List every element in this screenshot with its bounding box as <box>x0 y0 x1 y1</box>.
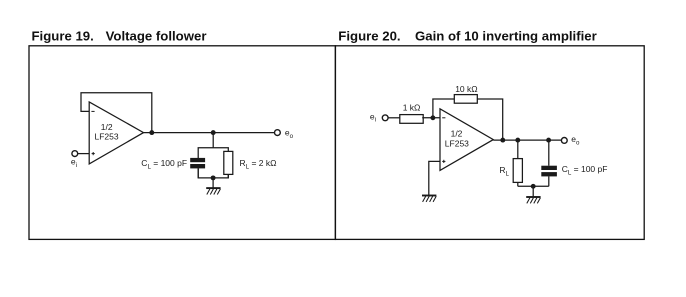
wire: fig20 from R2 to inverting input <box>422 117 440 119</box>
wire: fig19 from output node down to load network <box>212 133 214 148</box>
svg-text:LF253: LF253 <box>445 139 469 149</box>
junction: fig20 feedback-output node <box>500 138 505 143</box>
svg-text:Figure 20.: Figure 20. <box>338 29 400 44</box>
wire: fig19 input from terminal to plus input <box>78 153 90 155</box>
svg-text:ei: ei <box>71 157 77 169</box>
wire: fig20 R_L top lead <box>517 140 519 159</box>
pin label: fig19 non-inverting input plus sign <box>92 152 95 155</box>
junction: fig19 load branch node <box>211 130 216 135</box>
terminal e_i fig20 (input open circle) <box>382 115 388 121</box>
svg-text:1 kΩ: 1 kΩ <box>403 103 421 113</box>
wire: fig19 ground stem <box>212 178 214 188</box>
junction: fig20 ground node <box>531 184 536 189</box>
wire: fig20 R_L bottom lead <box>517 182 519 186</box>
op-amp U2 (1/2 LF253) fig20 triangle <box>440 109 493 171</box>
heading Figure 20 <box>338 29 596 44</box>
heading Figure 19 <box>32 29 207 44</box>
junction: fig20 R_L branch node <box>515 138 520 143</box>
svg-text:eo: eo <box>571 134 580 146</box>
junction: fig19 feedback-output node <box>149 130 154 135</box>
pin label: fig20 inverting input minus sign <box>442 117 445 119</box>
wire: fig20 output from op-amp apex to output terminal <box>493 139 561 141</box>
capacitor C1 (C_L = 100 pF) fig19 plates <box>190 158 205 169</box>
svg-text:ei: ei <box>370 111 376 123</box>
pin label: fig19 inverting input minus sign <box>91 110 94 112</box>
svg-text:10 kΩ: 10 kΩ <box>455 84 477 94</box>
svg-text:CL = 100 pF: CL = 100 pF <box>141 158 187 171</box>
svg-text:CL = 100 pF: CL = 100 pF <box>562 164 608 177</box>
ground fig19 <box>206 188 220 194</box>
wire: fig19 capacitor bottom lead <box>197 168 199 178</box>
resistor R3 (10 kOhm) fig20 body <box>454 95 477 104</box>
wire: fig20 feedback right segment down to output node <box>477 99 502 140</box>
svg-text:1/2: 1/2 <box>451 129 463 139</box>
wire: fig20 C_L top lead <box>548 140 550 166</box>
ground fig20 non-inverting input <box>422 196 436 202</box>
wire: fig20 load network bottom bar <box>518 185 549 187</box>
wire: fig19 load network bottom bar <box>198 168 228 178</box>
wire: fig20 input lead to R2 <box>388 117 400 119</box>
wire: fig20 C_L bottom lead <box>548 176 550 186</box>
svg-text:Gain of 10 inverting amplifier: Gain of 10 inverting amplifier <box>415 29 597 44</box>
junction: fig20 summing node <box>430 115 435 120</box>
svg-text:RL = 2 kΩ: RL = 2 kΩ <box>240 158 277 171</box>
terminal e_i fig19 (input open circle) <box>72 151 78 157</box>
frame figure 20 <box>335 46 644 240</box>
ground fig20 load <box>526 197 540 203</box>
svg-text:eo: eo <box>285 128 294 140</box>
wire: fig20 ground stem <box>532 186 534 197</box>
frame figure 19 <box>29 46 335 240</box>
wire: fig19 feedback loop from inverting input up and over to output node <box>81 93 152 133</box>
wire: fig19 resistor bottom lead <box>227 174 229 178</box>
resistor R2 (1 kOhm) fig20 body <box>400 115 423 124</box>
junction: fig19 ground node <box>211 175 216 180</box>
svg-text:Voltage follower: Voltage follower <box>106 29 207 44</box>
svg-text:Figure 19.: Figure 19. <box>32 29 94 44</box>
junction: fig20 C_L branch node <box>546 138 551 143</box>
wire: fig20 non-inverting input to ground <box>429 161 440 195</box>
capacitor C2 (C_L = 100 pF) fig20 plates <box>541 166 557 177</box>
resistor R4 (R_L) fig20 body <box>513 159 522 183</box>
resistor R1 (R_L = 2 kOhm) fig19 body <box>224 151 233 174</box>
terminal e_o fig19 (output open circle) <box>275 130 281 136</box>
wire: fig20 feedback from summing node up left segment <box>433 99 454 118</box>
terminal e_o fig20 (output open circle) <box>561 138 567 144</box>
op-amp U1 (1/2 LF253) fig19 triangle <box>89 102 143 164</box>
wire: fig19 load network top bar <box>198 148 228 158</box>
wire: fig19 output from op-amp apex to output terminal <box>144 132 275 134</box>
svg-text:RL: RL <box>499 165 509 178</box>
svg-text:LF253: LF253 <box>95 131 119 141</box>
pin label: fig20 non-inverting input plus sign <box>442 160 445 163</box>
